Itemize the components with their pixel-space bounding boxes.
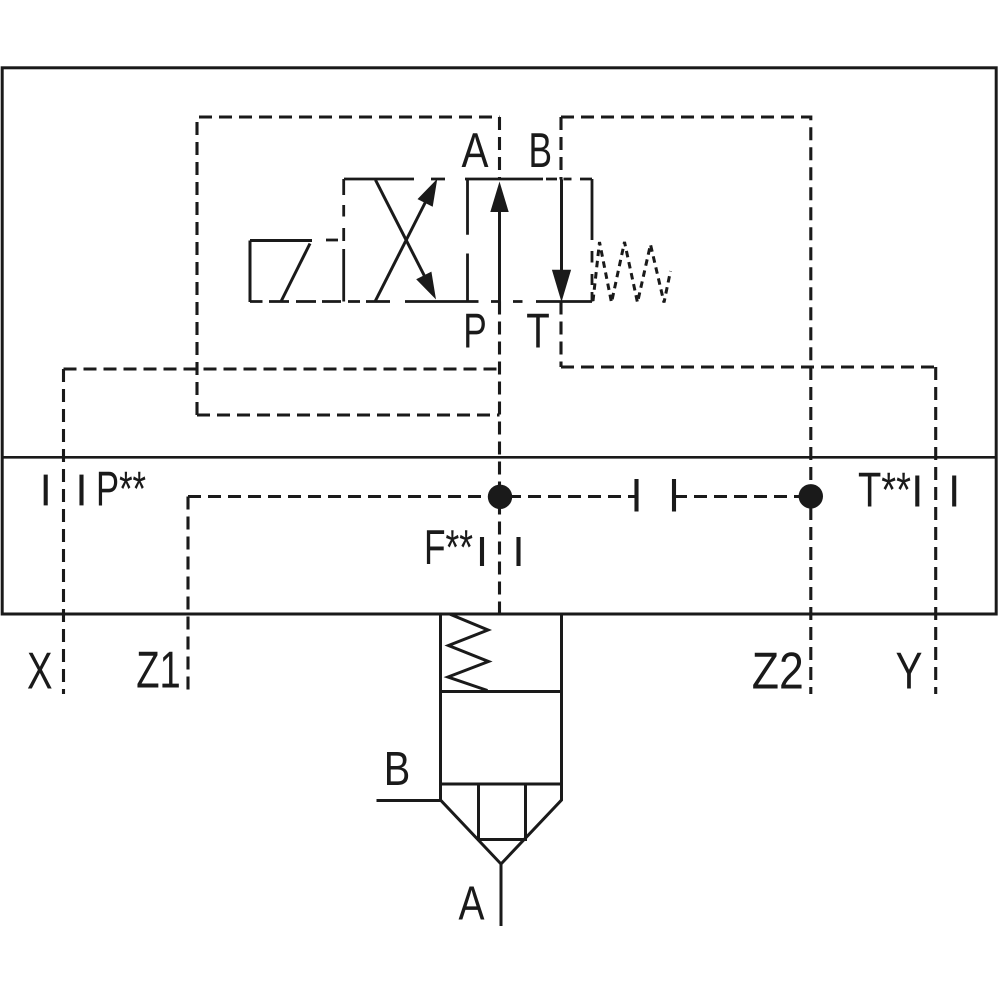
svg-text:B: B (384, 743, 411, 796)
wire B connection pilot valve (dashed) (559, 117, 562, 180)
svg-text:A: A (459, 878, 485, 931)
svg-text:T: T (526, 304, 550, 358)
wire P pilot vertical valve to cartridge (dashed) (498, 302, 501, 614)
wire X vertical (dashed) (62, 369, 65, 694)
cartridge seat section line (441, 783, 562, 786)
port A line (500, 864, 503, 926)
port F** bars (480, 537, 484, 566)
svg-text:A: A (462, 124, 489, 178)
svg-text:Y: Y (896, 642, 923, 700)
solenoid top connector dash (326, 239, 338, 242)
svg-text:Z1: Z1 (136, 642, 181, 700)
svg-text:Z2: Z2 (752, 642, 804, 700)
junction dot T (799, 484, 823, 508)
pilot valve 4/2 body left edge (dashed) (342, 179, 345, 302)
arrow B to T in right square (552, 180, 571, 303)
pilot valve 4/2 body middle divider (long dash) (466, 179, 469, 302)
svg-text:P: P (463, 304, 487, 358)
cartridge valve outline (441, 614, 562, 864)
pilot valve 4/2 body bottom edge (dashed) (250, 300, 592, 303)
wire X horizontal (dashed) (64, 367, 500, 370)
port P** bars (44, 475, 48, 506)
cartridge poppet bottom (477, 838, 527, 841)
pilot valve 4/2 body top edge (dashed) (344, 178, 592, 181)
port B line (377, 799, 441, 802)
pilot control line bar to T junction (dashed) (674, 495, 811, 498)
wire T to Y (dashed) (561, 365, 936, 368)
svg-text:F**: F** (424, 521, 473, 575)
wire A connection pilot valve (dashed) (498, 117, 501, 180)
crossed arrow 2 (down-right) in left square (376, 180, 437, 300)
junction dot P (488, 485, 512, 509)
arrow P to A in right square (490, 182, 508, 302)
pilot valve 4/2 body right edge (591, 179, 594, 302)
left enclosure bottom edge (197, 413, 500, 416)
solenoid box (250, 241, 312, 303)
cartridge poppet right (524, 784, 527, 840)
svg-text:B: B (529, 124, 553, 178)
wire Y vertical (dashed) (934, 367, 937, 694)
disconnect bars mid (634, 479, 638, 512)
svg-text:P**: P** (96, 463, 146, 517)
wire Z1 vertical (dashed) (186, 497, 189, 695)
pilot control line Z1 to P junction (dashed) (188, 495, 637, 498)
plate divider line (2, 456, 996, 459)
svg-text:T**: T** (858, 464, 911, 518)
cartridge spring zigzag (448, 614, 489, 691)
port T** bars (915, 476, 919, 507)
pilot valve left dashed enclosure (197, 117, 500, 415)
manifold plate outer border (2, 68, 996, 614)
cartridge spring box bottom (441, 690, 562, 693)
pilot valve right dashed enclosure (561, 117, 811, 367)
svg-text:X: X (27, 643, 53, 701)
pilot valve return spring (dashed zigzag) (593, 242, 671, 303)
wire Z2 vertical (dashed) (809, 367, 812, 694)
wire T connection pilot valve (dashed) (559, 302, 562, 368)
cartridge poppet left (477, 784, 480, 840)
crossed arrow 1 (up-right) in left square (375, 179, 438, 302)
